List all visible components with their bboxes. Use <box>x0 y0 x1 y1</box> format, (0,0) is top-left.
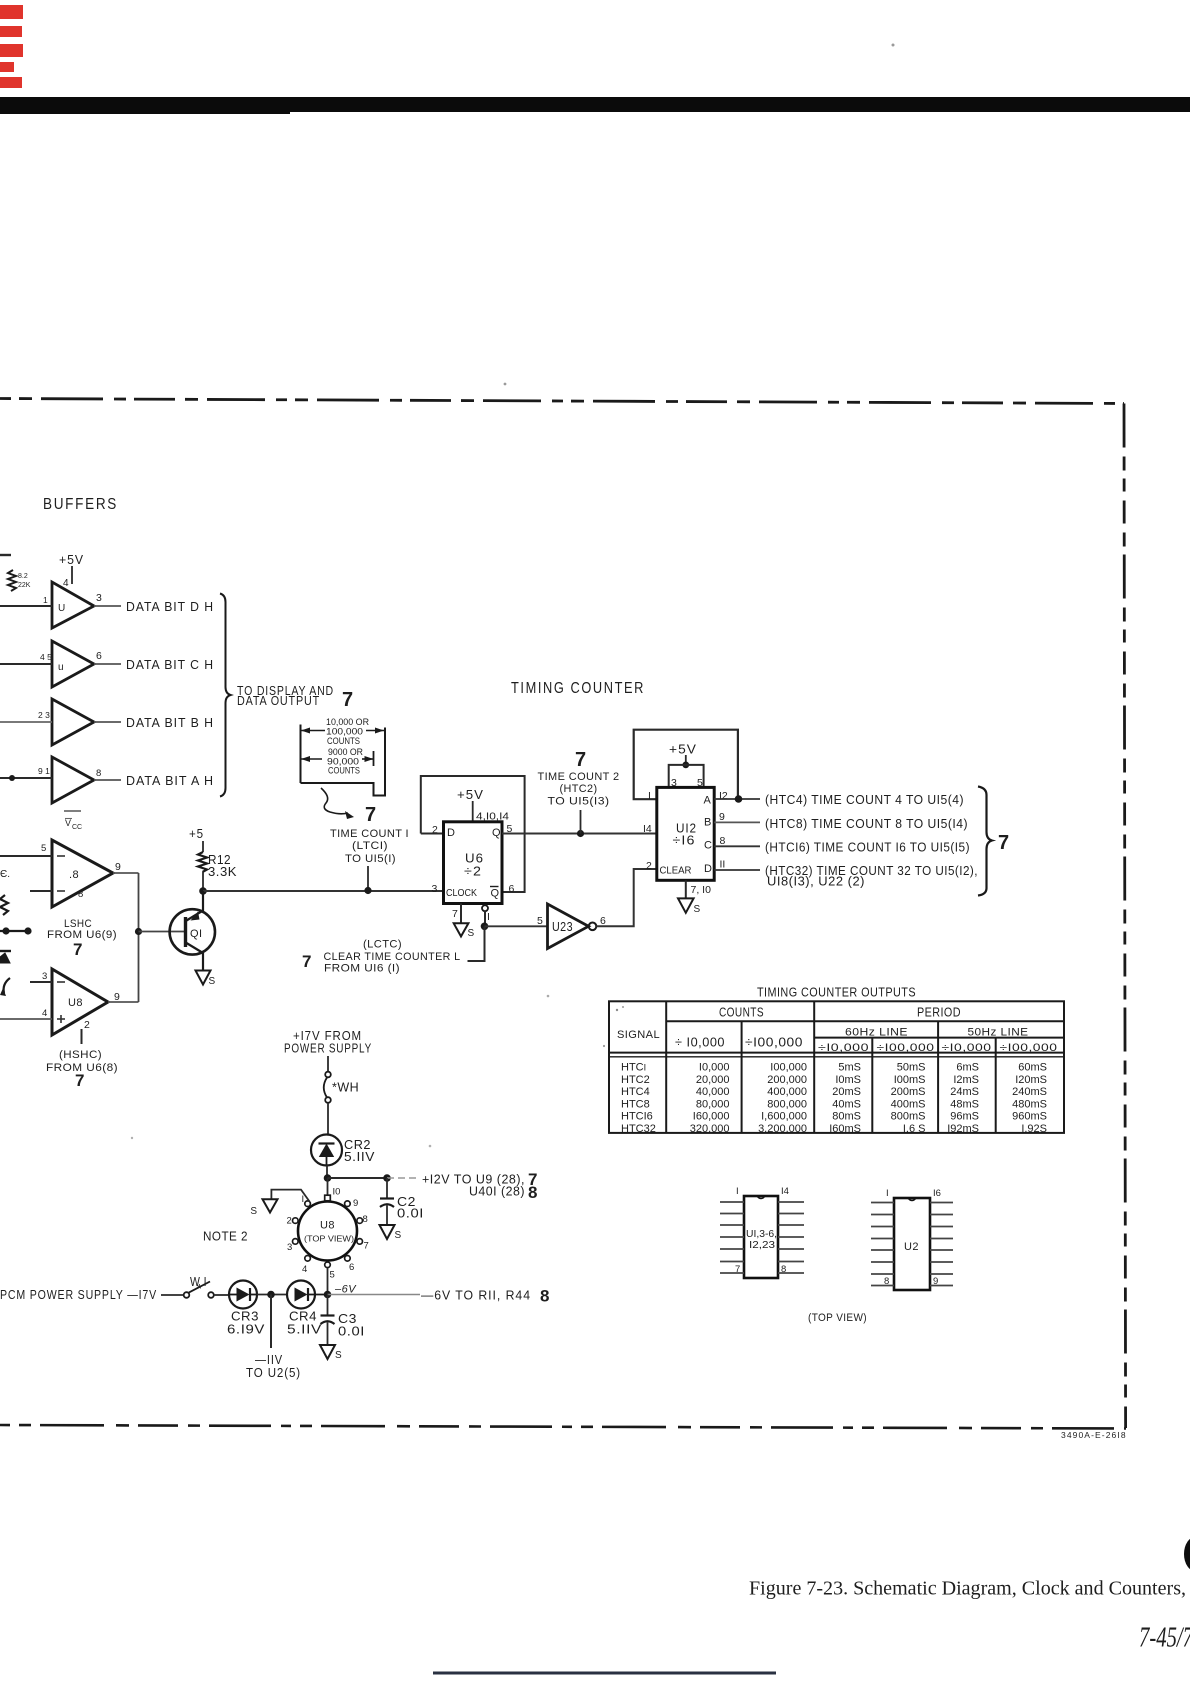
wire +5V to buffer pin 4 <box>71 566 73 584</box>
svg-text:7: 7 <box>364 1241 369 1252</box>
wire +5V into U6 <box>472 801 474 822</box>
svg-text:TO UI5(I3): TO UI5(I3) <box>548 796 610 808</box>
svg-text:—6V TO RII, R44: —6V TO RII, R44 <box>421 1288 531 1303</box>
svg-text:÷I0,000: ÷I0,000 <box>818 1042 869 1054</box>
output wire C <box>714 845 760 847</box>
svg-text:2: 2 <box>646 860 652 872</box>
LCTC drop wire <box>468 926 485 961</box>
wire with junction dots at page edge <box>0 930 31 932</box>
input wire data bit A <box>0 777 52 779</box>
svg-text:Figure 7-23. Schematic Diagra: Figure 7-23. Schematic Diagram, Clock an… <box>749 1578 1186 1600</box>
svg-text:7: 7 <box>998 832 1009 854</box>
junction dot on A output <box>735 795 743 803</box>
wire CR3 to node <box>257 1294 287 1296</box>
wire +12V node to U8 pin 10 <box>327 1178 329 1196</box>
dashed schematic border: top edge <box>0 399 1124 404</box>
svg-text:TO U2(5): TO U2(5) <box>246 1365 301 1380</box>
U2 pins left <box>871 1203 894 1286</box>
wire node to U23 input <box>485 925 548 927</box>
buffer gate U8B <box>52 969 108 1035</box>
svg-text:S: S <box>335 1350 342 1361</box>
svg-text:I20mS: I20mS <box>1015 1074 1047 1086</box>
output wire <box>94 721 121 723</box>
svg-text:DATA BIT D H: DATA BIT D H <box>126 599 214 614</box>
wire R12 to collector node <box>202 872 204 891</box>
svg-text:8: 8 <box>528 1183 537 1202</box>
wire stub top-left <box>0 554 11 556</box>
DIP U1 pins right <box>778 1202 804 1273</box>
svg-text:A: A <box>704 795 712 807</box>
transistor array U8 (TO-100 can, top view) <box>298 1202 357 1261</box>
Q1 emitter (top, arrow toward base) <box>187 911 204 921</box>
dimension arrow line 9000/90,000 <box>301 758 322 760</box>
svg-text:I0mS: I0mS <box>835 1074 861 1086</box>
dashed schematic border: right edge <box>1124 404 1126 1429</box>
svg-text:U: U <box>58 603 65 614</box>
svg-text:96mS: 96mS <box>950 1111 979 1123</box>
svg-text:240mS: 240mS <box>1012 1086 1047 1098</box>
svg-text:HTC8: HTC8 <box>621 1098 650 1110</box>
svg-text:5.IIV: 5.IIV <box>344 1150 375 1164</box>
wire +5 to R12 <box>202 841 204 852</box>
svg-text:CR3: CR3 <box>231 1310 259 1324</box>
svg-text:UI8(I3), U22 (2): UI8(I3), U22 (2) <box>767 875 865 889</box>
pin 7,10 ground stub <box>685 880 687 898</box>
svg-text:DATA OUTPUT: DATA OUTPUT <box>237 693 320 708</box>
output wire <box>94 779 121 781</box>
svg-text:48mS: 48mS <box>950 1098 979 1110</box>
scan specks <box>892 44 895 47</box>
svg-text:24mS: 24mS <box>950 1086 979 1098</box>
svg-text:÷I6: ÷I6 <box>673 833 696 848</box>
svg-text:I60mS: I60mS <box>829 1123 861 1135</box>
svg-text:8: 8 <box>363 1214 368 1225</box>
svg-text:8: 8 <box>720 835 726 847</box>
svg-text:I4: I4 <box>781 1186 789 1197</box>
svg-text:TIME COUNT I: TIME COUNT I <box>330 828 409 840</box>
svg-text:400mS: 400mS <box>891 1098 926 1110</box>
svg-text:I.92S: I.92S <box>1021 1123 1047 1135</box>
svg-text:(HTC8) TIME COUNT 8 TO UI5(I4: (HTC8) TIME COUNT 8 TO UI5(I4) <box>765 817 968 831</box>
DIP package U2 body <box>894 1198 930 1290</box>
svg-text:II: II <box>720 859 726 871</box>
ground under U12 <box>678 898 694 912</box>
svg-text:7: 7 <box>365 804 376 826</box>
svg-text:3490A-E-26I8: 3490A-E-26I8 <box>1061 1430 1127 1440</box>
svg-text:U8: U8 <box>68 997 83 1009</box>
svg-text:(TOP VIEW): (TOP VIEW) <box>808 1312 867 1324</box>
dimension arrow line 10,000/100,000 <box>301 730 325 732</box>
top black separator bar <box>0 97 1190 112</box>
svg-text:I0: I0 <box>333 1187 341 1198</box>
plus mark <box>57 1018 65 1020</box>
svg-text:40,000: 40,000 <box>696 1086 730 1098</box>
svg-text:DATA BIT C H: DATA BIT C H <box>126 657 214 672</box>
svg-text:9: 9 <box>719 811 725 823</box>
svg-text:7: 7 <box>342 689 353 711</box>
ground at U8 pin 1 <box>263 1199 278 1212</box>
U8 pin 1 ground wire <box>271 1190 309 1202</box>
svg-text:6: 6 <box>96 650 102 662</box>
svg-text:HTCI: HTCI <box>621 1062 646 1074</box>
svg-text:HTCI6: HTCI6 <box>621 1111 653 1123</box>
red registration bars top-left <box>0 5 23 88</box>
svg-text:7: 7 <box>75 1071 84 1090</box>
Q1 emitter wire up <box>202 891 204 911</box>
HTC2 tap wire up <box>580 810 582 834</box>
base wire to Q1 <box>139 931 185 933</box>
Vcc-bar symbol under buffer A <box>64 810 81 812</box>
Q1 collector wire down <box>202 953 204 971</box>
svg-text:9: 9 <box>115 861 121 873</box>
transistor Q1 <box>170 909 215 954</box>
svg-text:50Hz LINE: 50Hz LINE <box>968 1027 1029 1039</box>
input wire data bit D <box>0 605 52 607</box>
svg-text:PERIOD: PERIOD <box>917 1006 961 1020</box>
svg-text:7-45/7: 7-45/7 <box>1139 1623 1190 1654</box>
U8 pin terminals 1-10 <box>293 1195 363 1267</box>
resistor R12 <box>198 852 207 872</box>
Q1 collector (bottom) <box>187 943 204 953</box>
jumper WH terminals <box>325 1072 331 1078</box>
minus mark <box>57 981 65 983</box>
ground under U6 <box>454 923 469 936</box>
svg-text:S: S <box>694 904 701 915</box>
svg-text:6mS: 6mS <box>956 1062 979 1074</box>
svg-text:80,000: 80,000 <box>696 1098 730 1110</box>
ground under C3 <box>320 1345 335 1359</box>
svg-text:U2: U2 <box>904 1241 919 1253</box>
svg-text:6.I9V: 6.I9V <box>227 1323 265 1337</box>
+12V rail wire <box>328 1177 388 1179</box>
svg-text:0.0I: 0.0I <box>338 1325 365 1339</box>
buffer amplifier (data bit C) <box>52 641 94 687</box>
svg-text:20mS: 20mS <box>832 1086 861 1098</box>
output wire B <box>714 821 760 823</box>
svg-text:I00mS: I00mS <box>894 1074 926 1086</box>
svg-text:÷I00,000: ÷I00,000 <box>745 1036 803 1050</box>
svg-text:I: I <box>648 790 651 802</box>
svg-text:+5V: +5V <box>457 787 484 802</box>
flip-flop U6 divide-by-2 <box>444 822 503 904</box>
svg-text:2: 2 <box>287 1216 292 1227</box>
svg-text:DATA BIT A H: DATA BIT A H <box>126 773 214 788</box>
Q output wire (to HTC2 and U12 pin 14) <box>502 833 657 835</box>
svg-text:V: V <box>65 818 71 828</box>
svg-text:I2: I2 <box>719 790 728 802</box>
svg-text:(HTCI6) TIME COUNT I6 TO UI5(: (HTCI6) TIME COUNT I6 TO UI5(I5) <box>765 841 970 855</box>
capacitor C2 <box>386 1178 388 1198</box>
svg-text:FROM UI6 (I): FROM UI6 (I) <box>324 963 400 975</box>
svg-text:7: 7 <box>452 908 458 920</box>
svg-text:BUFFERS: BUFFERS <box>43 496 118 513</box>
vertical wire joining U8A/U8B outputs <box>138 873 140 1002</box>
svg-text:960mS: 960mS <box>1012 1111 1047 1123</box>
svg-text:3.3K: 3.3K <box>208 865 237 879</box>
-11V drop wire <box>270 1295 272 1349</box>
svg-text:÷2: ÷2 <box>464 864 482 879</box>
wire pin1 down to node <box>484 911 486 926</box>
input wire data bit B <box>0 721 52 723</box>
svg-text:8.2: 8.2 <box>18 573 28 580</box>
svg-text:PCM POWER SUPPLY —I7V: PCM POWER SUPPLY —I7V <box>0 1287 157 1302</box>
svg-text:480mS: 480mS <box>1012 1098 1047 1110</box>
svg-text:7: 7 <box>302 952 311 971</box>
capacitor C3 <box>327 1295 329 1316</box>
svg-text:8: 8 <box>96 768 101 779</box>
svg-text:200mS: 200mS <box>891 1086 926 1098</box>
junction node -6V <box>324 1291 332 1299</box>
wire LTC1 tap <box>367 866 369 891</box>
tick for 9000 extent <box>373 751 375 766</box>
svg-text:Є.: Є. <box>0 869 10 880</box>
svg-text:–6V: –6V <box>334 1284 357 1296</box>
inverter U23 <box>548 904 589 949</box>
svg-text:800,000: 800,000 <box>767 1098 807 1110</box>
bottom rule line <box>433 1672 776 1675</box>
svg-text:S: S <box>250 1206 257 1217</box>
buffer amplifier (data bit B) <box>52 699 94 745</box>
wire -17V to WI switch <box>161 1294 184 1296</box>
svg-text:50mS: 50mS <box>897 1062 926 1074</box>
svg-text:400,000: 400,000 <box>767 1086 807 1098</box>
svg-text:+5V: +5V <box>59 552 84 567</box>
input wire lower (U8A) <box>30 890 52 892</box>
buffer gate U8A <box>52 840 113 907</box>
svg-text:÷I00,000: ÷I00,000 <box>877 1042 935 1054</box>
svg-text:I2mS: I2mS <box>953 1074 979 1086</box>
svg-text:COUNTS: COUNTS <box>719 1006 764 1020</box>
svg-text:QI: QI <box>190 928 202 940</box>
U6 feedback loop wire <box>421 776 525 892</box>
output wire D <box>714 869 760 871</box>
input wire data bit C <box>0 663 52 665</box>
D input wire from feedback <box>421 833 444 835</box>
junction dot on clock wire <box>364 887 371 894</box>
svg-text:I: I <box>302 1194 305 1205</box>
svg-text:2: 2 <box>432 824 438 836</box>
svg-text:4: 4 <box>302 1264 307 1275</box>
zener diode CR3 <box>229 1281 257 1309</box>
waveform baseline with notch <box>301 728 386 796</box>
punch-hole blob at right edge <box>1184 1537 1190 1572</box>
svg-text:I60,000: I60,000 <box>693 1111 730 1123</box>
svg-text:6: 6 <box>600 915 606 927</box>
svg-text:Q: Q <box>492 827 501 839</box>
svg-text:+5: +5 <box>189 826 204 841</box>
input wire lower (U8B) <box>0 1018 52 1020</box>
svg-text:U8: U8 <box>320 1220 335 1232</box>
resistor fragment at page edge <box>0 895 8 915</box>
transistor arc fragment at page edge <box>4 978 10 993</box>
svg-text:CC: CC <box>72 824 82 831</box>
svg-text:CLEAR TIME COUNTER L: CLEAR TIME COUNTER L <box>324 951 461 963</box>
svg-text:.8: .8 <box>69 869 79 881</box>
svg-text:(HSHC): (HSHC) <box>59 1049 102 1061</box>
junction node to Q1 base <box>135 928 142 935</box>
svg-text:40mS: 40mS <box>832 1098 861 1110</box>
svg-text:UI,3-6,: UI,3-6, <box>746 1229 777 1240</box>
output wire <box>94 663 121 665</box>
pin 1 inversion bubble <box>482 905 488 911</box>
svg-text:I00,000: I00,000 <box>770 1062 807 1074</box>
ground under C2 <box>380 1225 395 1239</box>
ground (signal) under Q1 <box>196 971 211 985</box>
svg-text:4: 4 <box>42 1008 47 1019</box>
svg-text:3: 3 <box>432 883 438 895</box>
svg-text:5: 5 <box>330 1270 335 1281</box>
svg-text:U40I (28): U40I (28) <box>469 1185 525 1199</box>
timing counter outputs table grid <box>609 1001 1064 1133</box>
svg-text:D: D <box>447 827 455 839</box>
svg-text:CR4: CR4 <box>289 1310 317 1324</box>
svg-text:1: 1 <box>43 595 48 605</box>
svg-text:(TOP VIEW): (TOP VIEW) <box>304 1235 354 1244</box>
resistor (pull-up, cut at page edge) <box>8 570 16 591</box>
svg-text:B: B <box>704 817 712 829</box>
DIP package U1,3-6,12,23 body <box>744 1196 778 1278</box>
svg-text:2: 2 <box>84 1019 90 1031</box>
svg-text:POWER SUPPLY: POWER SUPPLY <box>284 1041 372 1056</box>
minus mark <box>57 890 65 892</box>
svg-text:I2,23: I2,23 <box>749 1240 776 1251</box>
zener diode CR4 <box>287 1281 315 1309</box>
junction dot <box>682 762 689 769</box>
svg-text:÷I0,000: ÷I0,000 <box>942 1042 992 1054</box>
zener diode CR2 <box>311 1135 342 1166</box>
svg-text:7: 7 <box>73 940 82 959</box>
svg-text:TO UI5(I): TO UI5(I) <box>345 853 396 865</box>
svg-text:0.0I: 0.0I <box>397 1207 424 1221</box>
svg-text:COUNTS: COUNTS <box>327 736 360 747</box>
svg-text:I4: I4 <box>643 823 652 835</box>
output wire U8A <box>113 872 139 874</box>
svg-text:TIMING COUNTER: TIMING COUNTER <box>511 680 645 697</box>
svg-text:2 3: 2 3 <box>38 710 50 720</box>
svg-text:800mS: 800mS <box>891 1111 926 1123</box>
svg-text:U23: U23 <box>552 920 573 934</box>
jumper WH arc <box>324 1078 327 1098</box>
brace for HTC outputs <box>978 787 992 896</box>
svg-text:(HTC4) TIME COUNT 4 TO UI5(4): (HTC4) TIME COUNT 4 TO UI5(4) <box>765 793 964 807</box>
brace to display and data output <box>220 594 231 797</box>
output wire U8B <box>108 1001 139 1003</box>
svg-text:60Hz LINE: 60Hz LINE <box>845 1027 908 1039</box>
svg-text:*: * <box>197 1282 202 1296</box>
pin 2 stub below U8B <box>81 1029 83 1044</box>
buffer amplifier (data bit A) <box>52 757 94 803</box>
U8 pin 5 wire to -6V node <box>327 1268 329 1295</box>
svg-text:5mS: 5mS <box>838 1062 861 1074</box>
svg-text:9 1: 9 1 <box>38 766 50 776</box>
svg-text:7, I0: 7, I0 <box>691 884 712 896</box>
svg-text:(LCTC): (LCTC) <box>363 939 402 951</box>
svg-text:I: I <box>886 1188 889 1199</box>
svg-text:HTC4: HTC4 <box>621 1086 650 1098</box>
svg-text:+5V: +5V <box>669 742 697 757</box>
svg-text:4 5: 4 5 <box>40 652 52 662</box>
svg-text:200,000: 200,000 <box>767 1074 807 1086</box>
svg-text:(LTCI): (LTCI) <box>352 840 388 852</box>
svg-text:I: I <box>736 1186 739 1197</box>
svg-text:*WH: *WH <box>332 1081 359 1095</box>
svg-text:HTC32: HTC32 <box>621 1123 656 1135</box>
wire down to WH jumper <box>327 1056 329 1072</box>
svg-text:C: C <box>704 840 712 852</box>
svg-text:9: 9 <box>353 1198 358 1209</box>
squiggle arrow to TIME COUNT 1 <box>321 788 348 814</box>
counts dimension figure: left extent line <box>300 725 302 784</box>
svg-text:COUNTS: COUNTS <box>328 766 360 777</box>
svg-text:5.IIV: 5.IIV <box>287 1323 322 1337</box>
svg-text:DATA BIT B H: DATA BIT B H <box>126 715 214 730</box>
U2 pins right <box>930 1203 953 1286</box>
junction node -11V <box>267 1291 275 1299</box>
+5V bracket to pins 3 and 5 <box>669 765 704 788</box>
Q1 base bar <box>184 917 187 947</box>
svg-text:SIGNAL: SIGNAL <box>617 1029 660 1041</box>
counter U12 divide-by-16 <box>657 787 714 880</box>
input wire upper (U8B) <box>30 981 52 983</box>
svg-text:8: 8 <box>540 1287 549 1306</box>
diode fragment at page edge <box>0 950 11 952</box>
svg-text:I0,000: I0,000 <box>699 1062 730 1074</box>
svg-text:3,200,000: 3,200,000 <box>758 1123 807 1135</box>
DIP U1 pins left <box>720 1202 744 1273</box>
svg-text:TIMING COUNTER OUTPUTS: TIMING COUNTER OUTPUTS <box>757 986 916 1000</box>
svg-text:S: S <box>395 1230 402 1241</box>
junction node LCTC <box>481 923 489 931</box>
svg-text:60mS: 60mS <box>1018 1062 1047 1074</box>
U23 output wire to U12 clear <box>596 869 657 926</box>
svg-text:3: 3 <box>287 1242 292 1253</box>
svg-text:(HTC2): (HTC2) <box>560 783 598 795</box>
svg-text:HTC2: HTC2 <box>621 1074 650 1086</box>
table data rows <box>621 1062 1047 1136</box>
svg-text:3: 3 <box>96 592 102 604</box>
wire CR2 to +12V node <box>326 1166 328 1179</box>
output wire <box>94 605 121 607</box>
svg-text:80mS: 80mS <box>832 1111 861 1123</box>
svg-text:TIME COUNT 2: TIME COUNT 2 <box>538 771 620 783</box>
U23 output bubble <box>589 923 597 931</box>
svg-text:NOTE 2: NOTE 2 <box>203 1230 248 1244</box>
svg-text:5: 5 <box>537 915 543 927</box>
svg-text:7: 7 <box>575 749 586 771</box>
pin 7 ground stub <box>460 904 462 924</box>
svg-text:CLEAR: CLEAR <box>660 866 692 877</box>
svg-text:22K: 22K <box>18 582 31 589</box>
U12 feedback loop wire (pin 12 to pin 1) <box>634 730 738 800</box>
svg-text:÷I00,000: ÷I00,000 <box>1000 1042 1058 1054</box>
svg-text:I,600,000: I,600,000 <box>761 1111 807 1123</box>
svg-text:I: I <box>487 911 490 923</box>
output wire A <box>714 798 760 800</box>
HTC2 tap: junction dot <box>577 830 584 837</box>
svg-text:3: 3 <box>42 971 47 982</box>
svg-text:6: 6 <box>349 1262 354 1273</box>
svg-text:÷ I0,000: ÷ I0,000 <box>675 1036 725 1050</box>
svg-text:D: D <box>704 863 712 875</box>
input wire upper (U8A) <box>0 855 52 857</box>
counts dimension figure: right extent line <box>384 728 386 796</box>
svg-text:8: 8 <box>78 889 83 900</box>
switch WI <box>184 1292 190 1298</box>
junction node Q1 collector <box>199 887 207 895</box>
svg-text:I.6 S: I.6 S <box>903 1123 926 1135</box>
svg-text:Q: Q <box>491 888 500 900</box>
svg-text:320,000: 320,000 <box>690 1123 730 1135</box>
